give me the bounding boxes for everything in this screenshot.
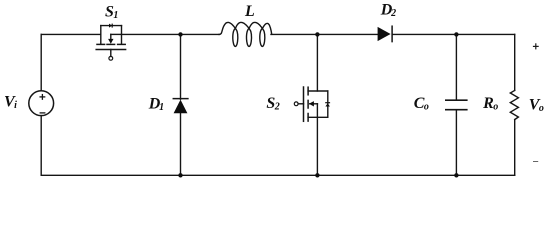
svg-text:S2: S2 <box>266 95 279 113</box>
svg-text:Vi: Vi <box>4 94 17 112</box>
svg-text:Vo: Vo <box>529 97 544 115</box>
svg-text:Co: Co <box>414 95 429 113</box>
svg-text:S1: S1 <box>105 4 118 22</box>
svg-text:Ro: Ro <box>482 95 498 113</box>
svg-text:D1: D1 <box>148 95 164 113</box>
svg-text:L: L <box>244 3 255 20</box>
svg-text:D2: D2 <box>380 2 396 20</box>
